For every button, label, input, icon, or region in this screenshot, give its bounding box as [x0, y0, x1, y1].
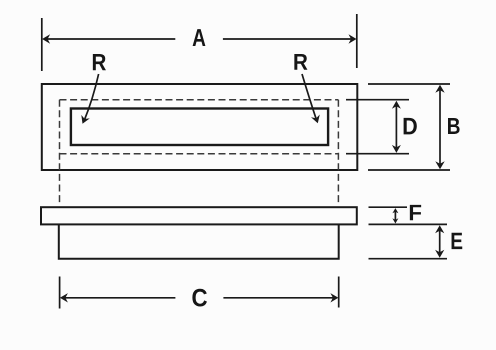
arrowhead F top — [392, 208, 398, 213]
inner rectangle (recess outline) — [71, 109, 328, 146]
arrowhead B bottom — [435, 161, 444, 169]
arrowhead C left — [60, 293, 68, 302]
dimension A extension line right — [356, 14, 358, 68]
outer rectangle (part outline, top view) — [42, 84, 358, 170]
dashed projection line right — [337, 100, 339, 203]
dashed hidden-line rectangle top edge — [60, 99, 339, 101]
arrowhead A left — [42, 34, 50, 43]
arrowhead D top — [392, 101, 401, 109]
dimension C extension line right — [338, 277, 340, 308]
flange bar (front view top plate) — [41, 207, 357, 224]
arrowhead E top — [435, 225, 444, 233]
dimension F extension line top — [369, 206, 408, 208]
body outline (front view lower block) — [59, 224, 339, 258]
arrowhead D bottom — [392, 145, 401, 153]
label F — [410, 205, 421, 220]
leader line left R — [84, 74, 99, 121]
dimension B extension line bottom — [368, 169, 450, 171]
arrowhead A right — [349, 34, 357, 43]
dimension C line — [64, 297, 335, 299]
dimension F line — [394, 211, 396, 220]
label A — [193, 29, 206, 46]
label B — [448, 118, 460, 134]
arrowhead leader R left — [78, 115, 90, 126]
leader line right R — [302, 74, 317, 122]
label R left — [93, 54, 106, 70]
arrowhead C right — [330, 293, 338, 302]
dimension B line — [439, 90, 441, 164]
label R right — [294, 54, 307, 70]
dimension E extension line bottom — [369, 258, 448, 260]
arrowhead E bottom — [435, 250, 444, 258]
arrowhead leader R right — [311, 114, 322, 124]
dashed projection line left — [59, 100, 61, 203]
arrowhead B top — [435, 85, 444, 93]
label D — [404, 118, 417, 135]
dashed hidden-line rectangle bottom edge — [60, 153, 339, 155]
dimension B extension line top — [368, 83, 450, 85]
label E — [452, 233, 463, 249]
label C — [192, 289, 207, 307]
dimension A line — [47, 38, 353, 40]
dimension D extension line bottom — [346, 153, 409, 155]
dimension A extension line left — [41, 18, 43, 71]
dimension C extension line left — [59, 277, 61, 309]
dimension D line — [395, 106, 397, 148]
dimension E line — [439, 230, 441, 254]
dimension D extension line top — [346, 99, 409, 101]
shared extension line F/E — [369, 223, 448, 225]
arrowhead F bottom — [392, 218, 398, 223]
